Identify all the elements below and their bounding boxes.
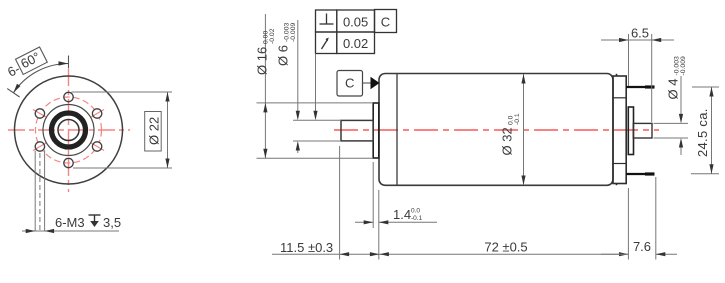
perpendicularity symbol: [320, 14, 334, 25]
dimension 72: [379, 253, 628, 255]
svg-text:6.5: 6.5: [631, 26, 649, 41]
svg-text:-0.009: -0.009: [290, 23, 297, 42]
svg-text:0.02: 0.02: [343, 36, 368, 51]
front view mounting holes 6x M3: [35, 92, 102, 167]
feature control frame: [316, 10, 397, 54]
svg-text:1.4: 1.4: [393, 207, 411, 222]
dimension diameter 4: [654, 76, 689, 155]
svg-text:C: C: [345, 76, 354, 91]
svg-text:Ø 32: Ø 32: [500, 127, 515, 155]
runout symbol: [322, 40, 328, 50]
terminal tab bottom: [626, 173, 654, 175]
front view bolt circle (red dashed): [36, 97, 102, 163]
front pilot boss (side view): [373, 103, 379, 158]
svg-text:-0.02: -0.02: [269, 28, 276, 44]
motor body: [379, 74, 613, 186]
label 6-60 degrees: [4, 47, 47, 80]
dimension diameter 6: [293, 20, 341, 153]
svg-text:7.6: 7.6: [633, 239, 651, 254]
side view centerline: [334, 129, 659, 131]
front view outer flange circle: [15, 76, 123, 184]
60 degree arc dimension: [7, 56, 68, 98]
front view horizontal centerline: [8, 129, 130, 131]
svg-text:-0.1: -0.1: [411, 215, 423, 222]
FCF leader arrow: [315, 54, 317, 119]
svg-text:-0.009: -0.009: [680, 56, 687, 75]
svg-text:60°: 60°: [18, 49, 42, 71]
svg-text:Ø 4: Ø 4: [666, 79, 681, 100]
rear bearing boss: [628, 107, 633, 155]
dimension 11.5: [272, 146, 379, 260]
dimension 24.5 ca: [691, 87, 719, 174]
svg-text:Ø 22: Ø 22: [147, 117, 162, 145]
dimension diameter 16: [257, 14, 374, 158]
svg-text:Ø 6: Ø 6: [276, 45, 291, 66]
dimension 6-M3 depth 3,5: [22, 230, 119, 232]
svg-text:11.5 ±0.3: 11.5 ±0.3: [280, 240, 333, 255]
leader lines 6-M3 hole tangents: [35, 150, 44, 231]
front view vertical centerline: [68, 69, 70, 192]
svg-text:0.0: 0.0: [411, 208, 420, 215]
dimension 1.4: [355, 162, 437, 260]
svg-text:3,5: 3,5: [103, 215, 121, 230]
dimension 7.6: [601, 177, 677, 260]
dimension 6.5: [601, 34, 674, 122]
svg-text:0.05: 0.05: [343, 14, 368, 29]
front view bearing ring: [50, 111, 88, 149]
front shaft (side view): [341, 120, 373, 140]
datum C symbol: [337, 71, 363, 97]
svg-text:Ø 16: Ø 16: [255, 47, 270, 75]
svg-text:C: C: [381, 14, 390, 29]
terminal tab top: [626, 86, 654, 88]
front view radial hole centerlines: [33, 110, 104, 151]
svg-text:6-M3: 6-M3: [55, 215, 85, 230]
svg-text:6-: 6-: [5, 61, 22, 80]
front view shaft circle: [58, 120, 79, 141]
front view pilot boss circle: [43, 105, 94, 156]
flange separation line: [396, 74, 398, 185]
svg-text:72 ±0.5: 72 ±0.5: [484, 240, 527, 255]
svg-text:24.5 ca.: 24.5 ca.: [695, 108, 710, 157]
rear end cap: [613, 74, 626, 185]
hole interiors masking bolt circle: [36, 110, 101, 151]
dimension diameter 32: [523, 74, 525, 185]
svg-text:-0.1: -0.1: [514, 113, 521, 125]
dimension diameter 22: [72, 92, 173, 168]
rear shaft stub: [633, 123, 652, 138]
